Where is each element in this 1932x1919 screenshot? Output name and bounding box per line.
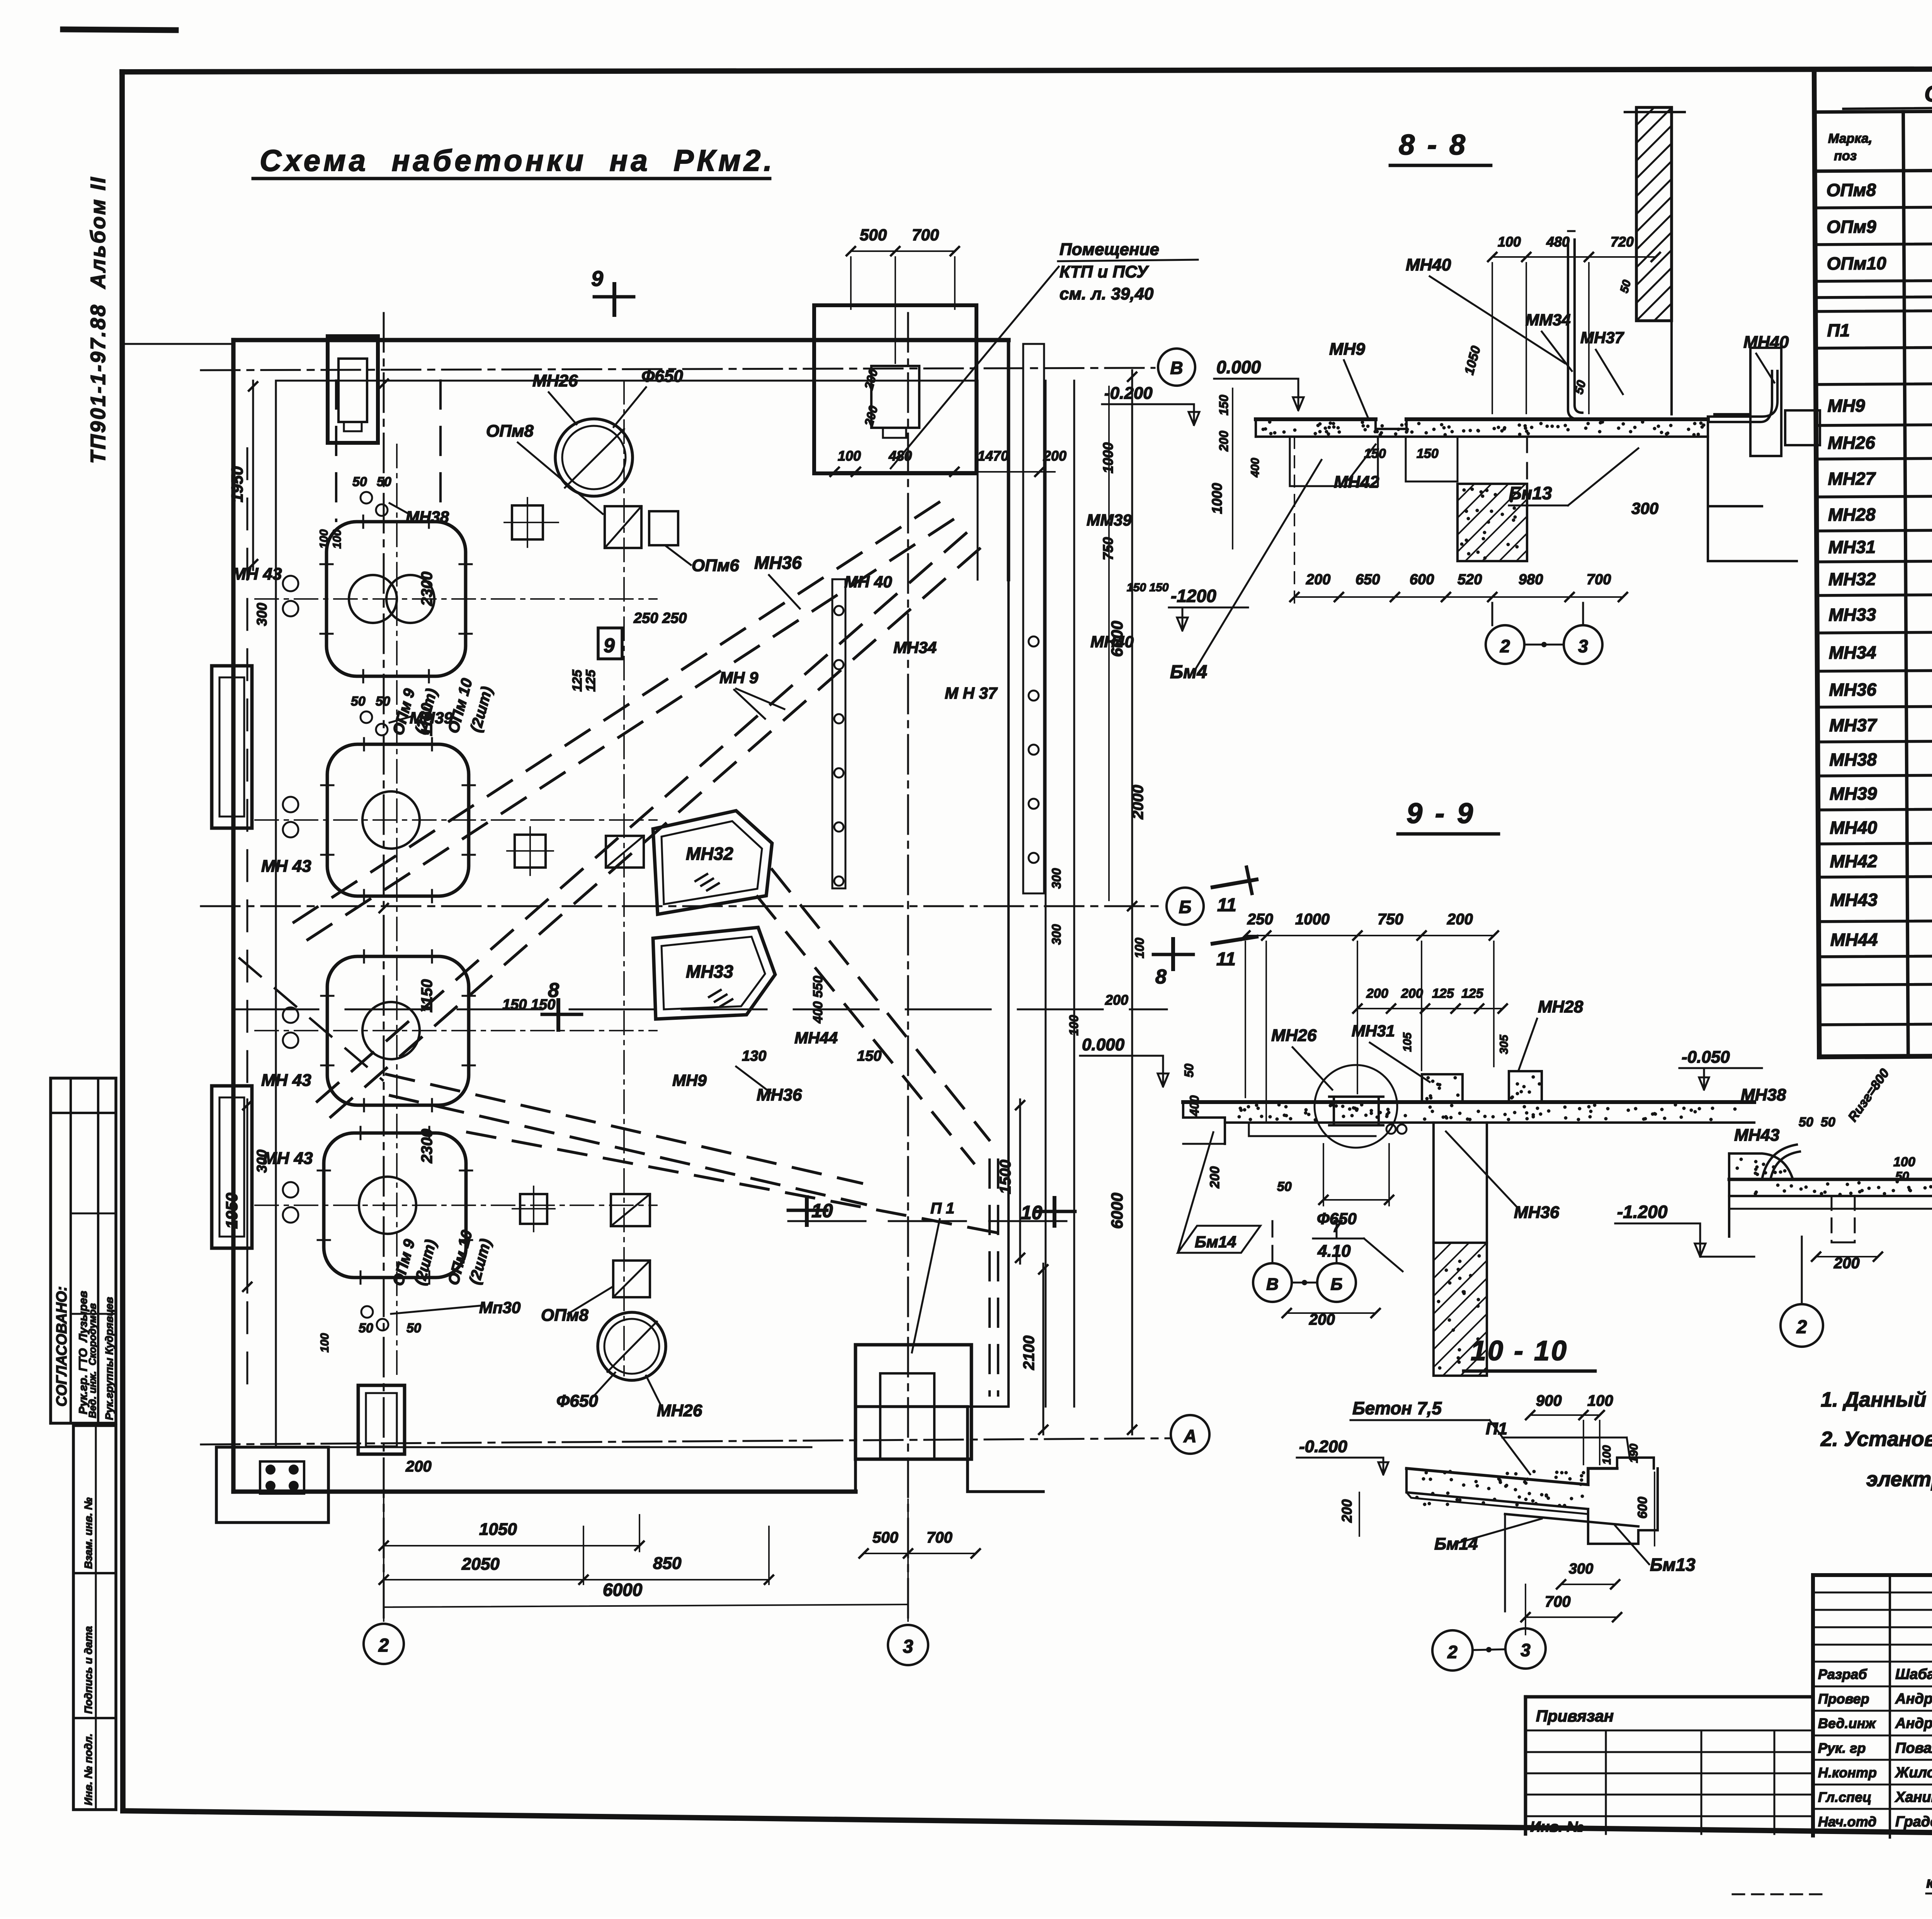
svg-text:Привязан: Привязан	[1536, 1707, 1614, 1725]
9-9 floor slab	[1183, 1100, 1754, 1104]
svg-text:МН26: МН26	[532, 371, 578, 390]
svg-text:см. л. 39,40: см. л. 39,40	[1060, 284, 1154, 303]
top-left niche block	[328, 336, 378, 443]
svg-text:МН27: МН27	[1828, 468, 1876, 489]
8-8 right profile	[1672, 321, 1797, 561]
10-10 axis circles 2 3	[1432, 1630, 1473, 1671]
svg-text:МН39: МН39	[1830, 783, 1877, 804]
intermediate pads	[512, 505, 543, 539]
svg-text:400 550: 400 550	[811, 976, 825, 1024]
svg-text:200: 200	[405, 1458, 432, 1475]
svg-text:50: 50	[352, 475, 367, 489]
svg-text:200: 200	[1217, 430, 1231, 452]
svg-text:Бм14: Бм14	[1434, 1535, 1478, 1553]
9-9 dims top	[1245, 935, 1494, 936]
svg-text:-0.050: -0.050	[1682, 1048, 1730, 1067]
svg-text:100: 100	[1587, 1392, 1613, 1409]
svg-text:100: 100	[1498, 234, 1521, 250]
svg-text:МН 43: МН 43	[261, 857, 311, 876]
svg-text:50: 50	[1799, 1115, 1813, 1130]
svg-text:ММ39: ММ39	[1087, 511, 1132, 529]
left dashed wall line	[247, 448, 248, 1383]
MN39 connection mid	[361, 711, 372, 723]
svg-text:Градобоинов: Градобоинов	[1895, 1814, 1932, 1830]
svg-text:750: 750	[1378, 911, 1403, 928]
svg-text:поз: поз	[1834, 148, 1857, 163]
dim extension right	[1108, 386, 1110, 900]
svg-text:400: 400	[1187, 1095, 1201, 1116]
svg-text:300: 300	[1049, 924, 1063, 945]
svg-text:МН9: МН9	[1827, 395, 1865, 416]
sheet border left	[122, 72, 123, 1811]
svg-text:850: 850	[653, 1554, 682, 1573]
manhole d650 bottom MN26	[598, 1312, 666, 1380]
bottom wall outer	[233, 1489, 855, 1494]
svg-text:-0.200: -0.200	[1299, 1437, 1347, 1456]
svg-text:300: 300	[1631, 499, 1658, 517]
svg-text:МН38: МН38	[1829, 749, 1877, 770]
top wall outer	[233, 338, 1009, 342]
svg-text:2300: 2300	[418, 572, 435, 606]
support under slab	[1290, 437, 1378, 486]
pump base 3	[327, 956, 469, 1105]
svg-text:-0.200: -0.200	[1104, 384, 1153, 403]
top-left niche inner	[338, 359, 367, 422]
svg-text:125: 125	[583, 669, 598, 692]
svg-text:700: 700	[927, 1529, 952, 1546]
svg-text:300: 300	[1049, 868, 1063, 889]
svg-text:Ханин: Ханин	[1895, 1789, 1932, 1805]
svg-text:1050: 1050	[479, 1520, 517, 1539]
svg-text:150: 150	[857, 1048, 881, 1064]
pad OPm8 bottom	[613, 1261, 650, 1297]
svg-text:Рук. гр: Рук. гр	[1818, 1740, 1866, 1756]
svg-text:150: 150	[1217, 395, 1231, 415]
svg-text:200: 200	[1306, 572, 1330, 588]
pad OPm8 top	[605, 506, 641, 548]
panel MN33	[653, 927, 775, 1019]
bottom-right niche inner	[880, 1373, 934, 1459]
MN38 connection top	[361, 492, 372, 504]
svg-text:10: 10	[811, 1200, 833, 1221]
svg-text:50: 50	[377, 475, 391, 489]
svg-text:8: 8	[1155, 966, 1167, 988]
pipe strip MN40	[832, 579, 845, 888]
svg-text:В: В	[1170, 358, 1183, 378]
svg-text:9: 9	[591, 266, 603, 291]
svg-text:МН 40: МН 40	[844, 573, 892, 591]
section cut 11-11	[1213, 880, 1257, 887]
svg-text:50: 50	[1277, 1179, 1292, 1194]
svg-text:520: 520	[1458, 572, 1482, 588]
dim 100 480 1470 200	[835, 471, 1055, 473]
svg-text:П1: П1	[1486, 1419, 1507, 1438]
svg-text:600: 600	[1635, 1497, 1650, 1519]
svg-text:1500: 1500	[997, 1160, 1014, 1194]
svg-text:4.10: 4.10	[1317, 1242, 1351, 1261]
svg-text:50: 50	[1618, 279, 1634, 294]
9-9 curbs	[1422, 1074, 1463, 1102]
svg-text:0.000: 0.000	[1216, 357, 1261, 377]
svg-text:11: 11	[1216, 949, 1236, 970]
svg-text:700: 700	[1587, 572, 1611, 588]
svg-text:МН38: МН38	[406, 508, 449, 526]
title underline	[253, 177, 770, 180]
svg-text:3: 3	[903, 1637, 913, 1657]
svg-text:500: 500	[860, 226, 887, 244]
svg-text:2: 2	[378, 1635, 389, 1656]
corridor wall 3	[1073, 381, 1075, 1407]
MN40 pipe right hook	[1708, 371, 1777, 417]
svg-text:Поваляева: Поваляева	[1895, 1740, 1932, 1756]
svg-text:200: 200	[1339, 1499, 1355, 1523]
svg-text:2: 2	[1500, 636, 1510, 656]
svg-text:2050: 2050	[461, 1555, 500, 1574]
svg-text:МН34: МН34	[893, 638, 937, 657]
svg-text:МН33: МН33	[1828, 604, 1876, 625]
svg-text:МН31: МН31	[1828, 537, 1876, 557]
svg-text:МН40: МН40	[1830, 817, 1877, 838]
svg-text:МН36: МН36	[754, 553, 802, 573]
centerline pumps column	[396, 444, 398, 1376]
4-dot pad	[260, 1461, 304, 1494]
svg-text:900: 900	[1536, 1392, 1562, 1409]
svg-text:100: 100	[318, 1333, 331, 1352]
pump base 2	[327, 744, 469, 896]
svg-text:КТП и ПСУ: КТП и ПСУ	[1060, 262, 1149, 281]
svg-text:3: 3	[1578, 636, 1588, 656]
svg-text:Взам. инв. №: Взам. инв. №	[82, 1497, 94, 1569]
svg-text:МН 9: МН 9	[719, 669, 759, 687]
svg-text:9: 9	[604, 635, 615, 657]
8-8 axis circles 2 3	[1492, 603, 1493, 625]
svg-text:П 1: П 1	[930, 1200, 954, 1217]
approval stamp (soglasovano)	[51, 1078, 116, 1423]
svg-text:50: 50	[1895, 1169, 1909, 1183]
svg-text:МН44: МН44	[794, 1029, 838, 1047]
svg-text:200: 200	[1207, 1166, 1222, 1189]
svg-text:Мп30: Мп30	[479, 1298, 520, 1317]
svg-text:11: 11	[1217, 895, 1236, 915]
svg-text:Спецификация к набетонке на: Спецификация к набетонке на РКм2	[1924, 79, 1932, 106]
svg-text:6000: 6000	[1108, 621, 1126, 657]
svg-text:2300: 2300	[418, 1129, 435, 1164]
8-8 bottom dims	[1294, 596, 1623, 598]
svg-text:305: 305	[1498, 1034, 1510, 1054]
svg-text:400: 400	[1249, 458, 1262, 478]
svg-text:Вед.инж: Вед.инж	[1818, 1715, 1876, 1731]
svg-text:250: 250	[1247, 911, 1273, 928]
axis 3 vertical	[907, 313, 909, 1623]
svg-text:МН37: МН37	[1829, 715, 1878, 735]
11-11 axis circles 2 3	[1801, 1237, 1803, 1303]
bottom-left block	[216, 1447, 328, 1523]
svg-text:100: 100	[331, 529, 344, 549]
dim chain left 1950	[252, 381, 254, 570]
svg-text:Ф650: Ф650	[556, 1392, 598, 1410]
bottom-left niche outer	[358, 1385, 405, 1454]
svg-text:МН38: МН38	[1741, 1085, 1786, 1104]
9-9 axis circles V B	[1272, 1221, 1274, 1263]
svg-text:980: 980	[1519, 572, 1543, 588]
svg-text:250 250: 250 250	[633, 610, 687, 626]
axis circle B	[1167, 888, 1204, 925]
svg-text:50: 50	[406, 1321, 421, 1335]
svg-text:МН26: МН26	[1271, 1026, 1317, 1045]
svg-text:Нач.отд: Нач.отд	[1818, 1814, 1876, 1830]
svg-text:105: 105	[1401, 1032, 1414, 1052]
svg-text:МН44: МН44	[1830, 929, 1878, 950]
svg-text:125: 125	[570, 669, 585, 692]
axis circle V	[1158, 349, 1195, 386]
sheet border bottom	[123, 1811, 1932, 1841]
svg-text:130: 130	[742, 1048, 766, 1064]
svg-text:1050: 1050	[1462, 344, 1483, 376]
section cut 9-9	[612, 284, 616, 315]
panel MN32	[653, 811, 772, 914]
svg-text:П1: П1	[1827, 320, 1850, 340]
svg-text:М Н 37: М Н 37	[945, 684, 998, 702]
top-right niche tab	[883, 428, 906, 438]
8-8 top dims	[1492, 256, 1656, 258]
svg-text:МН28: МН28	[1828, 504, 1876, 525]
axis circle 2	[364, 1624, 404, 1664]
svg-text:100: 100	[1893, 1155, 1915, 1169]
svg-text:Разраб: Разраб	[1818, 1666, 1867, 1682]
dashed line top left	[335, 381, 337, 521]
manhole d650 top MN26	[555, 419, 633, 496]
svg-text:1000: 1000	[1100, 442, 1116, 473]
svg-text:Жило: Жило	[1895, 1764, 1932, 1781]
svg-text:2100: 2100	[1020, 1335, 1037, 1370]
svg-text:200: 200	[1105, 992, 1128, 1008]
MN38 elbow curve	[1762, 1145, 1797, 1179]
svg-text:500: 500	[872, 1529, 898, 1546]
scan artifact dash top-left	[63, 29, 176, 30]
top-right niche block	[814, 305, 976, 473]
svg-text:ТП901-1-97.88 Альбом II: ТП901-1-97.88 Альбом II	[87, 176, 110, 464]
10-10 slab	[1406, 1468, 1617, 1485]
svg-text:МН9: МН9	[1329, 340, 1365, 359]
svg-text:Вед. инж. Скородумов: Вед. инж. Скородумов	[87, 1303, 98, 1418]
svg-text:2: 2	[1447, 1642, 1458, 1662]
svg-text:Бм14: Бм14	[1195, 1233, 1236, 1251]
svg-text:Помещение: Помещение	[1060, 240, 1159, 259]
right wall upper outer	[1007, 340, 1010, 580]
left wall niche 2	[212, 1086, 252, 1248]
svg-text:2000: 2000	[1129, 785, 1146, 820]
svg-text:МН28: МН28	[1538, 997, 1583, 1016]
svg-text:750: 750	[1100, 537, 1116, 560]
wall tie line left	[124, 343, 233, 345]
sheet border top	[122, 68, 1932, 72]
Bm14 flag	[1178, 1226, 1260, 1253]
10-10 right end block	[1617, 1458, 1654, 1468]
svg-text:150 150: 150 150	[1127, 581, 1169, 594]
svg-text:150 150: 150 150	[502, 997, 555, 1013]
svg-text:В: В	[1266, 1275, 1279, 1294]
MN38 connection bottom	[361, 1306, 373, 1318]
dim 500/700 top	[851, 250, 955, 252]
svg-text:МН40: МН40	[1406, 255, 1451, 274]
pipe strip MN39/40 right	[1023, 344, 1044, 893]
section cut 8-8	[233, 1009, 1167, 1011]
svg-text:МН9: МН9	[672, 1071, 707, 1089]
svg-text:Инв. № подл.: Инв. № подл.	[82, 1734, 94, 1805]
right vertical dims	[1131, 370, 1133, 1434]
svg-text:МН43: МН43	[1830, 890, 1878, 910]
11-11 left end	[1728, 1153, 1730, 1237]
top-left niche tab	[344, 422, 362, 431]
axis B horizontal	[201, 905, 1164, 907]
svg-text:125: 125	[1461, 986, 1484, 1001]
corridor wall 2	[1045, 381, 1047, 1407]
svg-text:МН36: МН36	[1514, 1203, 1560, 1222]
svg-text:Рук.группы Кудрявцев: Рук.группы Кудрявцев	[103, 1297, 115, 1420]
svg-text:1950: 1950	[228, 466, 246, 502]
svg-text:Провер: Провер	[1818, 1691, 1869, 1707]
svg-text:Марка,: Марка,	[1828, 131, 1872, 146]
dashed pipe runs MN36	[286, 502, 939, 927]
top wall inner	[276, 380, 978, 382]
svg-text:150: 150	[1364, 446, 1386, 461]
svg-text:Ф650: Ф650	[641, 367, 683, 386]
svg-text:МН 43: МН 43	[263, 1149, 313, 1168]
svg-text:1150: 1150	[418, 703, 435, 736]
svg-text:200: 200	[862, 404, 881, 428]
svg-text:6000: 6000	[603, 1580, 643, 1600]
svg-text:700: 700	[1545, 1593, 1571, 1610]
svg-text:1. Данный лист рассматривать: 1. Данный лист рассматривать совместно с…	[1821, 1388, 1932, 1411]
svg-text:Схема набетонки на РКм2.: Схема набетонки на РКм2.	[260, 143, 775, 177]
svg-text:коп. Мошкова: коп. Мошкова	[1926, 1874, 1932, 1891]
svg-text:МН32: МН32	[1828, 569, 1876, 589]
bottom-left niche inner	[366, 1393, 397, 1446]
svg-text:100: 100	[318, 529, 330, 549]
svg-text:2: 2	[1796, 1317, 1807, 1337]
svg-text:100: 100	[1600, 1445, 1613, 1465]
svg-text:2. Установку МН36 ÷ ММ40 пр: 2. Установку МН36 ÷ ММ40 производить под…	[1820, 1427, 1932, 1451]
svg-text:50: 50	[1182, 1063, 1196, 1077]
svg-text:ОПм8: ОПм8	[541, 1306, 588, 1325]
pump base 4	[324, 1133, 466, 1278]
svg-text:Бетон 7,5: Бетон 7,5	[1352, 1398, 1442, 1418]
svg-text:МН42: МН42	[1334, 473, 1379, 492]
svg-text:ОПм8: ОПм8	[486, 422, 534, 441]
svg-text:650: 650	[1355, 572, 1380, 588]
axis circle A	[1171, 1415, 1209, 1454]
svg-text:10 - 10: 10 - 10	[1471, 1335, 1568, 1366]
svg-text:Гл.спец: Гл.спец	[1818, 1789, 1871, 1805]
right corridor wall	[968, 580, 1009, 1407]
svg-text:1000: 1000	[1295, 911, 1330, 928]
top-right niche inner	[871, 366, 919, 428]
svg-text:МН40: МН40	[1743, 333, 1789, 352]
svg-text:МН26: МН26	[1828, 432, 1875, 453]
svg-text:-1200: -1200	[1171, 586, 1216, 606]
svg-text:МН42: МН42	[1830, 851, 1878, 871]
svg-text:МН26: МН26	[657, 1401, 702, 1420]
svg-text:МН33: МН33	[686, 961, 733, 982]
svg-text:ОПм10: ОПм10	[1827, 253, 1886, 274]
svg-text:50: 50	[1571, 379, 1588, 396]
bottom wall inner	[276, 1446, 811, 1448]
11-11 floor slab	[1729, 1178, 1932, 1181]
svg-text:8 - 8: 8 - 8	[1399, 129, 1468, 161]
dashed risers bottom right	[988, 1160, 991, 1395]
specification table	[1814, 65, 1932, 1057]
svg-text:МН36: МН36	[1829, 679, 1876, 700]
svg-text:А: А	[1183, 1426, 1196, 1446]
svg-text:Б: Б	[1330, 1275, 1342, 1294]
svg-text:10: 10	[1021, 1202, 1043, 1223]
axis circle 3	[888, 1625, 928, 1665]
9-9 wall below	[1434, 1123, 1487, 1243]
svg-text:Б: Б	[1179, 897, 1192, 917]
svg-text:6000: 6000	[1108, 1193, 1126, 1229]
svg-text:МН32: МН32	[686, 844, 733, 864]
svg-text:электромонтажников.: электромонтажников.	[1866, 1468, 1932, 1491]
svg-text:ОПм8: ОПм8	[1826, 180, 1876, 200]
section cut 10-10	[788, 1220, 1066, 1222]
svg-text:Подпись и дата: Подпись и дата	[82, 1626, 94, 1714]
bottom dim chains	[384, 1545, 639, 1546]
svg-text:150: 150	[1417, 446, 1439, 461]
svg-text:Андреева: Андреева	[1895, 1715, 1932, 1732]
svg-text:50: 50	[351, 694, 366, 709]
MN40 pipe vertical	[1568, 240, 1580, 419]
svg-text:100: 100	[838, 448, 861, 464]
svg-text:СОГЛАСОВАНО:: СОГЛАСОВАНО:	[54, 1286, 70, 1407]
right wall upper inner	[977, 381, 979, 580]
svg-text:МН37: МН37	[1580, 328, 1624, 347]
svg-text:480: 480	[1546, 234, 1570, 250]
svg-text:9 - 9: 9 - 9	[1406, 797, 1475, 829]
svg-text:0.000: 0.000	[1082, 1035, 1125, 1054]
bottom-right niche block	[855, 1345, 971, 1459]
title block	[1813, 1573, 1932, 1577]
svg-text:200: 200	[1447, 911, 1473, 928]
svg-text:300: 300	[1569, 1561, 1593, 1577]
9-9 d650 dim	[1323, 1199, 1389, 1201]
section 8-8 slab	[1256, 417, 1708, 421]
svg-text:125: 125	[1432, 986, 1454, 1001]
svg-text:1470: 1470	[978, 448, 1009, 464]
axis A horizontal	[201, 1438, 1170, 1444]
axis 2 vertical	[383, 313, 385, 1623]
svg-text:50: 50	[359, 1321, 373, 1335]
svg-text:Андреева: Андреева	[1895, 1691, 1932, 1707]
svg-text:МН34: МН34	[1829, 642, 1876, 663]
margin stamp inv/podpis/vzam	[73, 1426, 116, 1810]
svg-text:Rизг=800: Rизг=800	[1845, 1066, 1892, 1125]
svg-text:ОПм9: ОПм9	[1827, 216, 1876, 237]
svg-text:600: 600	[1410, 572, 1434, 588]
svg-text:1150: 1150	[418, 979, 435, 1012]
svg-text:720: 720	[1611, 234, 1634, 250]
svg-text:1950: 1950	[223, 1193, 241, 1229]
svg-text:МН43: МН43	[1734, 1126, 1779, 1145]
svg-text:Бм4: Бм4	[1170, 662, 1207, 682]
svg-text:Бм13: Бм13	[1650, 1555, 1696, 1575]
bottom right step wall	[855, 1407, 1043, 1492]
svg-text:МН31: МН31	[1352, 1022, 1395, 1040]
svg-text:200: 200	[862, 367, 881, 391]
svg-text:ОПм6: ОПм6	[692, 556, 739, 575]
9-9 detail circle	[1315, 1065, 1397, 1148]
svg-text:50: 50	[376, 694, 390, 709]
svg-text:ММ34: ММ34	[1526, 311, 1571, 329]
